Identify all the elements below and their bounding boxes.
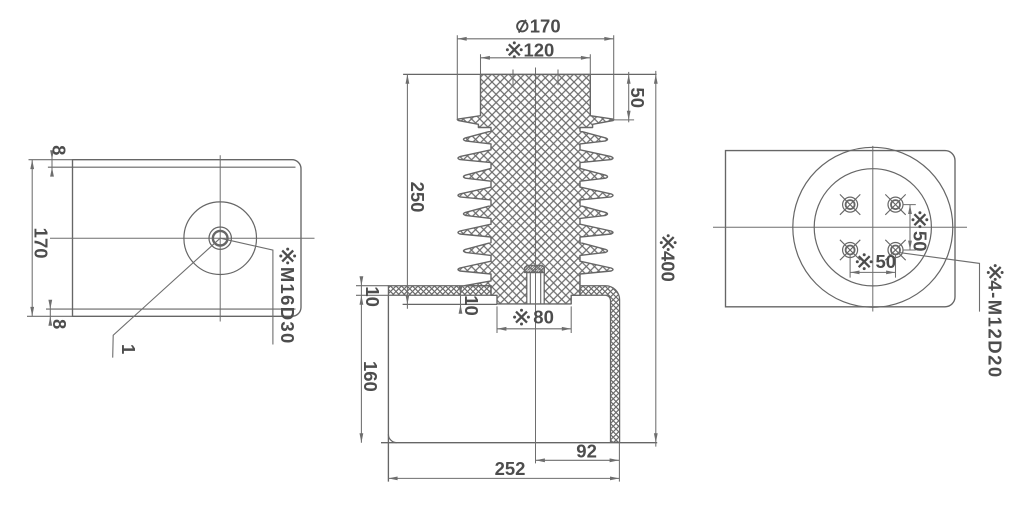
svg-text:160: 160 bbox=[360, 361, 381, 392]
svg-text:252: 252 bbox=[495, 458, 526, 479]
svg-text:4-M12D20: 4-M12D20 bbox=[985, 280, 1006, 378]
svg-text:M16D30: M16D30 bbox=[277, 267, 298, 345]
svg-text:400: 400 bbox=[658, 251, 679, 282]
svg-text:50: 50 bbox=[627, 87, 648, 108]
svg-text:250: 250 bbox=[407, 182, 428, 213]
svg-text:92: 92 bbox=[576, 440, 597, 461]
svg-text:8: 8 bbox=[49, 319, 70, 329]
svg-text:10: 10 bbox=[461, 295, 482, 316]
svg-text:50: 50 bbox=[909, 231, 930, 252]
svg-text:170: 170 bbox=[530, 16, 561, 37]
svg-text:1: 1 bbox=[118, 344, 139, 354]
svg-text:80: 80 bbox=[533, 307, 554, 328]
svg-text:120: 120 bbox=[523, 39, 554, 60]
svg-text:10: 10 bbox=[362, 286, 383, 307]
svg-text:50: 50 bbox=[876, 251, 897, 272]
svg-text:8: 8 bbox=[49, 145, 70, 155]
svg-text:170: 170 bbox=[30, 228, 51, 259]
